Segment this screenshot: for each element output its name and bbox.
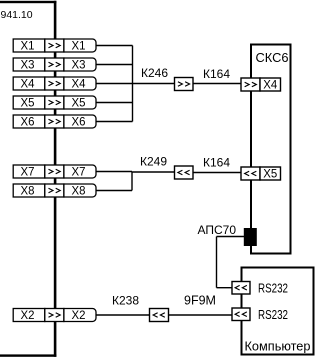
svg-text:X4: X4 bbox=[21, 77, 35, 91]
svg-text:X6: X6 bbox=[72, 115, 86, 129]
label K164 (middle) bbox=[203, 156, 230, 170]
box Computer bbox=[242, 268, 314, 355]
plug >> X3 bbox=[45, 58, 64, 71]
connector X4 (941.10 side) bbox=[13, 77, 45, 91]
connector X7 (cable side) bbox=[64, 165, 96, 179]
svg-text:X5: X5 bbox=[21, 96, 35, 110]
plug << RS232 port 2 bbox=[232, 308, 250, 321]
wire K249 to SKS6 X5 bbox=[193, 172, 241, 174]
connector X5 (cable side) bbox=[64, 96, 96, 110]
wire K246 to SKS6 X4 bbox=[193, 83, 241, 85]
label K164 (upper) bbox=[203, 67, 230, 81]
connector X7 (941.10 side) bbox=[13, 165, 45, 179]
connector X6 (941.10 side) bbox=[13, 115, 45, 129]
svg-text:X8: X8 bbox=[72, 184, 86, 198]
cable plug K238 << bbox=[150, 309, 169, 322]
plug >> X7 bbox=[45, 165, 64, 178]
svg-text:X3: X3 bbox=[21, 58, 35, 72]
svg-text:X1: X1 bbox=[21, 39, 35, 53]
connector X1 (cable side) bbox=[64, 39, 96, 53]
connector X2 (cable side) bbox=[64, 308, 96, 322]
plug >> X8 bbox=[45, 184, 64, 197]
svg-text:К164: К164 bbox=[203, 156, 230, 170]
connector X8 (941.10 side) bbox=[13, 184, 45, 198]
svg-text:К164: К164 bbox=[203, 67, 230, 81]
plug >> X2 bbox=[45, 309, 64, 322]
label K246 bbox=[141, 66, 168, 80]
svg-text:X5: X5 bbox=[72, 96, 86, 110]
wire X7 to bus2 bbox=[96, 171, 132, 173]
APS70 port (black square on SKS6) bbox=[244, 228, 257, 246]
wire K238 to RS232 port 2 bbox=[169, 314, 233, 316]
svg-text:RS232: RS232 bbox=[258, 308, 288, 322]
connector X8 (cable side) bbox=[64, 184, 96, 198]
svg-text:X4: X4 bbox=[263, 78, 277, 92]
svg-text:X7: X7 bbox=[72, 165, 86, 179]
connector X5 (941.10 side) bbox=[13, 96, 45, 110]
connector X2 (941.10 side) bbox=[13, 308, 45, 322]
plug >> at SKS6 X4 bbox=[241, 78, 260, 91]
cable plug K249 << bbox=[175, 166, 194, 179]
label RS232 port 2 bbox=[258, 308, 288, 322]
svg-text:Компьютер: Компьютер bbox=[245, 340, 311, 354]
plug << at SKS6 X5 bbox=[241, 167, 260, 180]
wire APS70 to RS232 port 1 bbox=[217, 287, 233, 289]
label K238 bbox=[112, 294, 139, 308]
box SKS6 bbox=[251, 45, 291, 254]
plug << RS232 port 1 bbox=[232, 282, 250, 295]
svg-text:АПС70: АПС70 bbox=[198, 223, 237, 237]
connector X5 (SKS6) bbox=[260, 167, 281, 181]
label K249 bbox=[140, 155, 167, 169]
svg-text:941.10: 941.10 bbox=[1, 9, 33, 21]
svg-text:X7: X7 bbox=[21, 165, 35, 179]
label RS232 port 1 bbox=[258, 282, 288, 296]
wire X3 to bus bbox=[96, 64, 133, 66]
svg-text:9F9М: 9F9М bbox=[184, 294, 216, 308]
svg-text:X4: X4 bbox=[72, 77, 86, 91]
svg-text:X6: X6 bbox=[21, 115, 35, 129]
connector X1 (941.10 side) bbox=[13, 39, 45, 53]
svg-text:X2: X2 bbox=[21, 308, 35, 322]
bus vertical X7-X8 bbox=[131, 172, 133, 191]
wire X6 to bus bbox=[96, 121, 133, 123]
connector X3 (941.10 side) bbox=[13, 58, 45, 72]
label 9F9M bbox=[184, 294, 216, 308]
wire X1 to bus bbox=[96, 45, 133, 47]
wire APS70 vertical bbox=[216, 237, 218, 288]
wire APS70 horizontal to square bbox=[217, 236, 245, 238]
bus vertical X1-X6 bbox=[132, 46, 134, 122]
plug >> X5 bbox=[45, 96, 64, 109]
wire X2 to K238 bbox=[96, 314, 150, 316]
connector X6 (cable side) bbox=[64, 115, 96, 129]
label 941.10 bbox=[1, 9, 33, 21]
cable plug K246 >> bbox=[175, 78, 194, 91]
svg-text:RS232: RS232 bbox=[258, 282, 288, 296]
svg-text:X3: X3 bbox=[72, 58, 86, 72]
label APS70 bbox=[198, 223, 237, 237]
svg-text:К238: К238 bbox=[112, 294, 139, 308]
plug >> X4 bbox=[45, 77, 64, 90]
plug >> X6 bbox=[45, 115, 64, 128]
svg-text:К249: К249 bbox=[140, 155, 167, 169]
svg-text:К246: К246 bbox=[141, 66, 168, 80]
connector X4 (cable side) bbox=[64, 77, 96, 91]
svg-text:X1: X1 bbox=[72, 39, 86, 53]
device 941.10 boundary bbox=[0, 1, 56, 357]
connector X3 (cable side) bbox=[64, 58, 96, 72]
svg-text:X8: X8 bbox=[21, 184, 35, 198]
wire X8 to bus2 bbox=[96, 190, 132, 192]
svg-text:X2: X2 bbox=[72, 308, 86, 322]
svg-text:СКС6: СКС6 bbox=[256, 50, 289, 65]
connector X4 (SKS6) bbox=[260, 78, 281, 92]
plug >> X1 bbox=[45, 39, 64, 52]
wire X5 to bus bbox=[96, 102, 133, 104]
wire X4 to K246 bbox=[96, 83, 175, 85]
svg-text:X5: X5 bbox=[263, 167, 277, 181]
wire bus2 to K249 bbox=[132, 171, 175, 173]
